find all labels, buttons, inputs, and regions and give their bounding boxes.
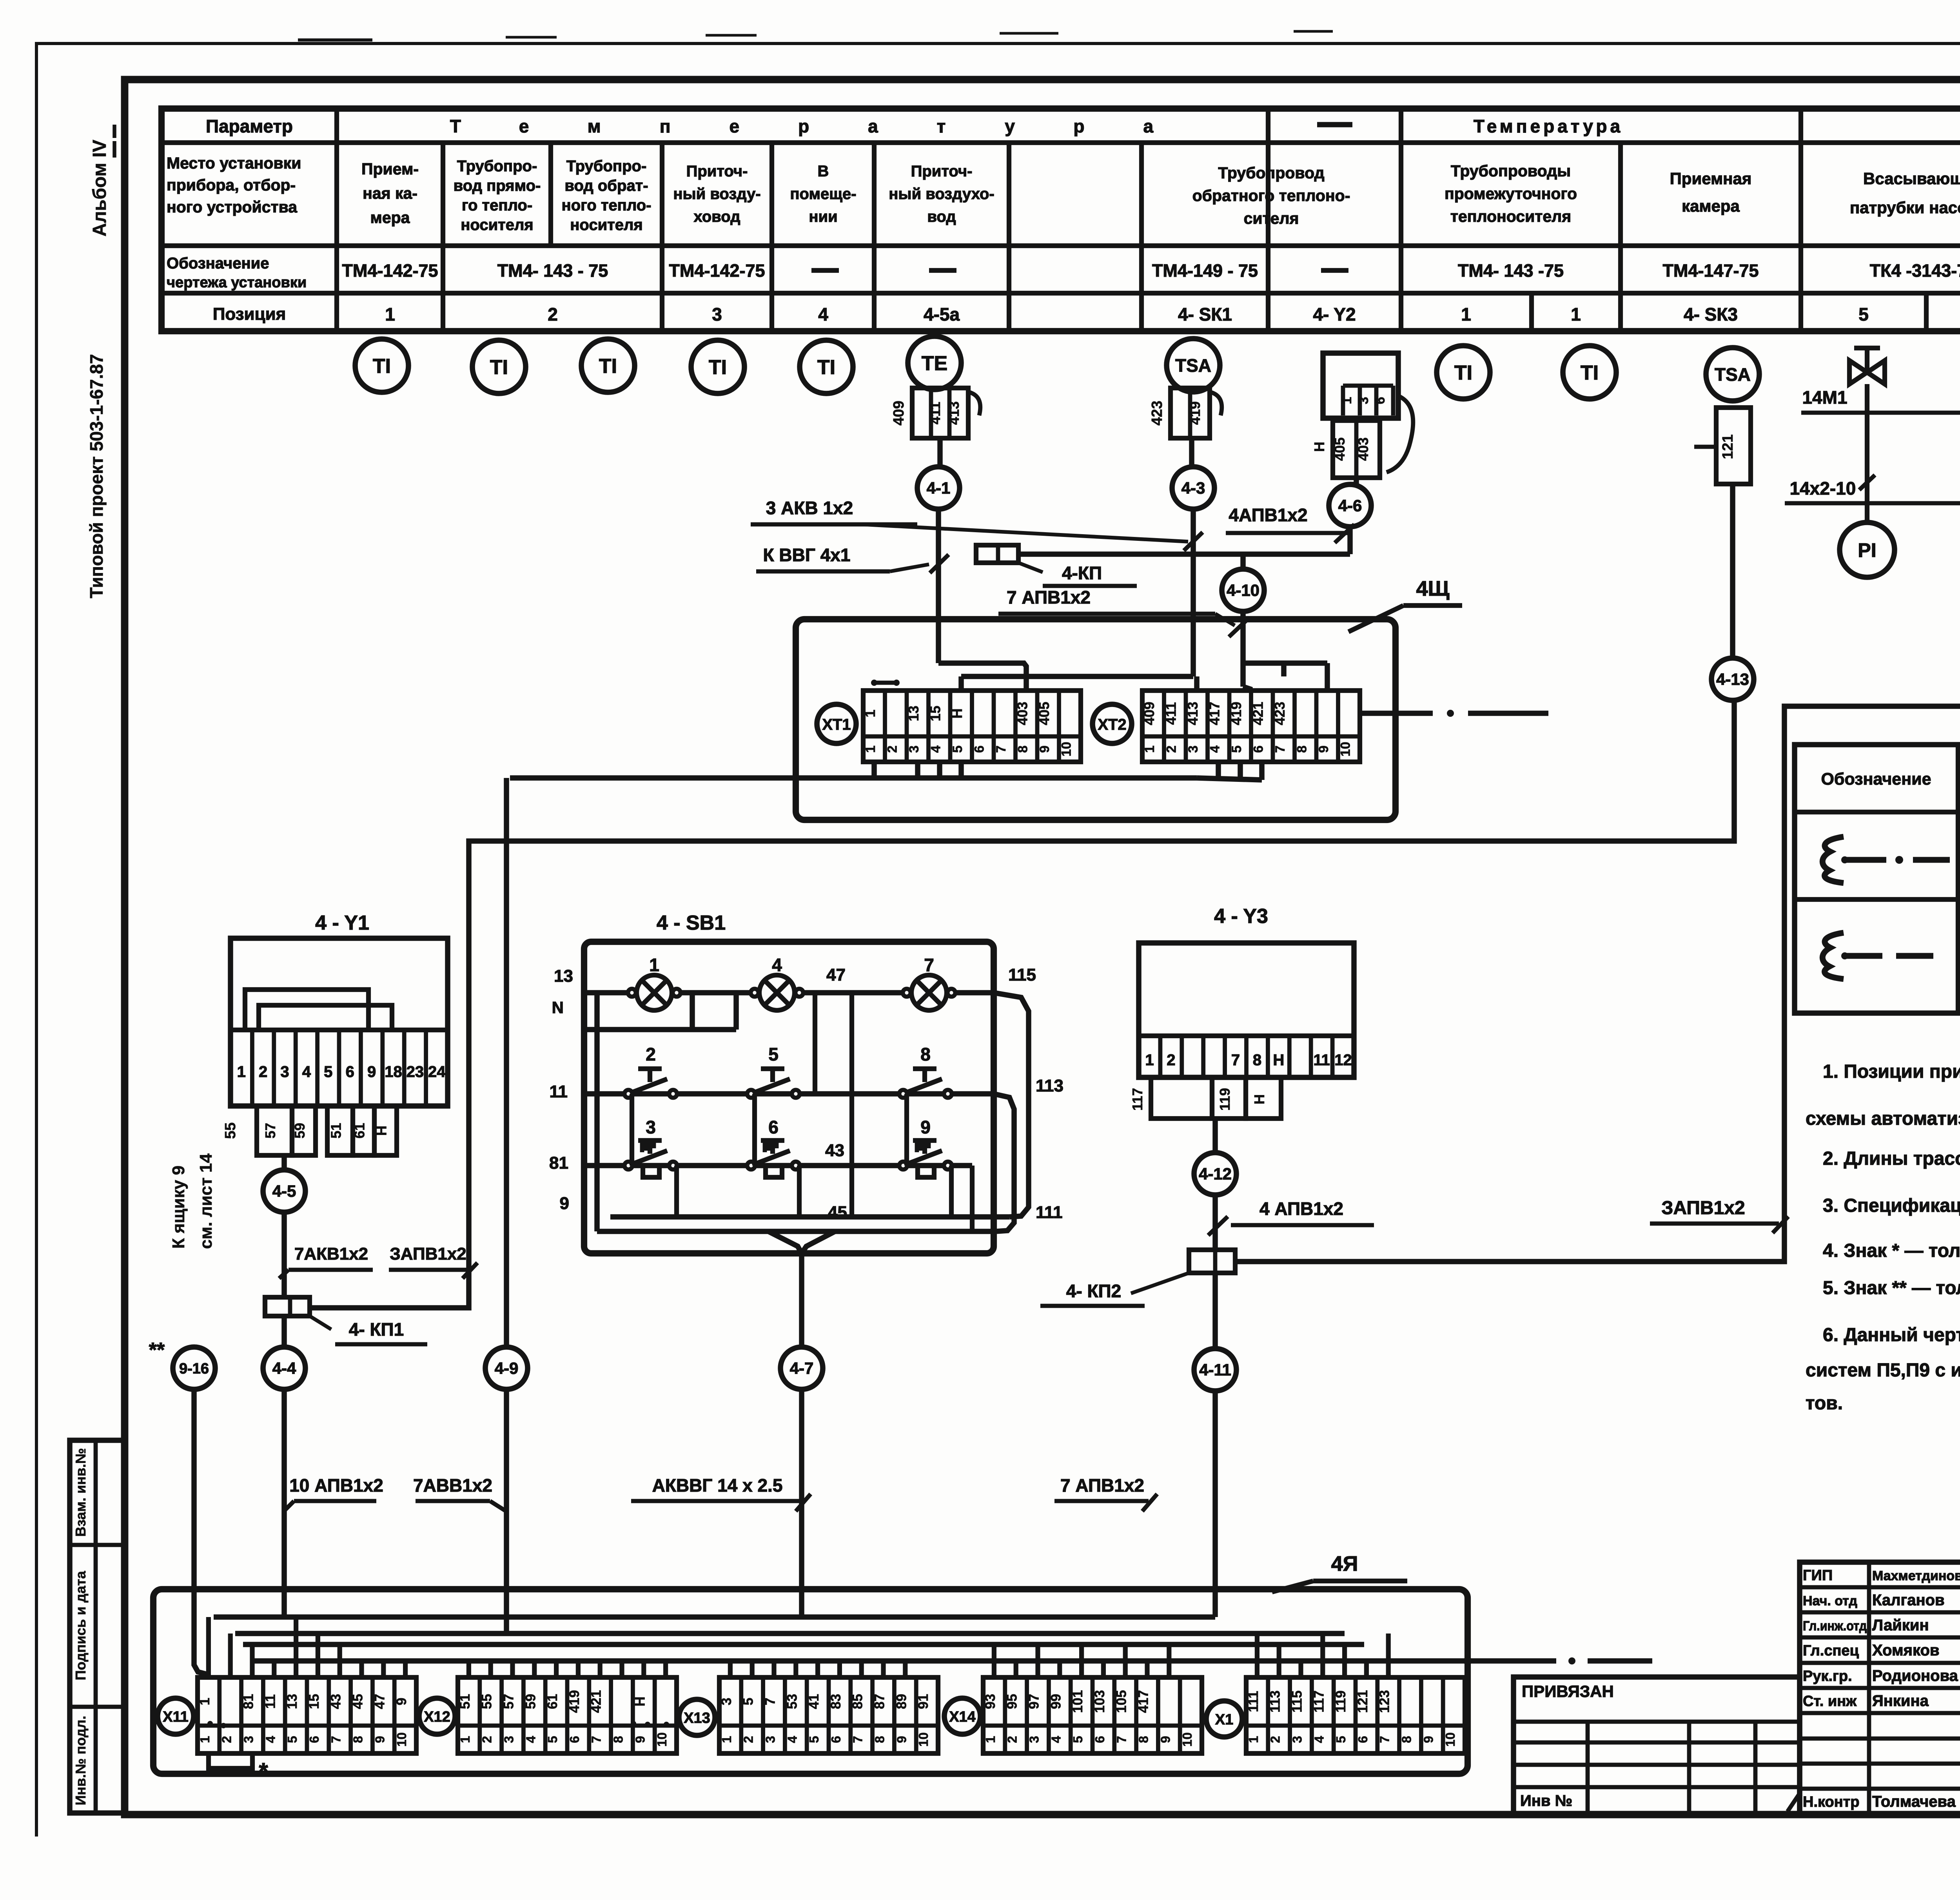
sub-terminals below 4-Y3 [1151,1077,1212,1119]
svg-text:7 АПВ1х2: 7 АПВ1х2 [1060,1475,1144,1496]
svg-text:прибора, отбор-: прибора, отбор- [167,176,296,194]
svg-text:ТМ4- 143 - 75: ТМ4- 143 - 75 [497,261,608,281]
svg-text:ТК4 -3143-70: ТК4 -3143-70 [1870,261,1960,281]
svg-text:6: 6 [567,1736,582,1743]
svg-text:Температура: Температура [1474,116,1623,136]
svg-text:ТМ4-147-75: ТМ4-147-75 [1662,261,1759,281]
svg-text:1: 1 [863,745,878,753]
svg-text:9: 9 [920,1117,931,1137]
svg-text:105: 105 [1114,1690,1129,1713]
svg-text:85: 85 [850,1694,866,1709]
svg-text:8: 8 [1136,1736,1151,1743]
svg-text:Место установки: Место установки [167,154,301,172]
svg-text:ТI: ТI [599,355,617,378]
svg-text:Н: Н [1251,1094,1267,1104]
bridge wires above XT1 [938,663,1026,691]
block 4-Y3 [1139,943,1354,1077]
svg-text:ХТ2: ХТ2 [1098,716,1126,733]
svg-text:413: 413 [946,401,962,425]
svg-text:схемы автоматизации см. л: схемы автоматизации см. лист 3 . [1806,1108,1960,1129]
wire 9-16 down to X11 [194,1389,207,1677]
svg-text:теплоносителя: теплоносителя [1450,207,1571,225]
wire 4-Y3 to 4-12 [1212,1119,1218,1153]
svg-text:Обозначение: Обозначение [167,255,269,272]
svg-text:115: 115 [1008,965,1036,984]
svg-text:Всасывающие: Всасывающие [1863,169,1960,188]
svg-text:4-9: 4-9 [495,1359,519,1378]
block 4-Y1 [230,938,448,1106]
terminal box 4Я [153,1589,1468,1774]
label 4-КП1 [310,1316,331,1329]
svg-text:ТI: ТI [1454,362,1472,384]
svg-text:РI: РI [1858,539,1876,561]
svg-text:13: 13 [285,1694,300,1709]
svg-text:5: 5 [1334,1736,1348,1743]
svg-text:4-7: 4-7 [790,1359,814,1378]
svg-text:3: 3 [1290,1736,1305,1743]
pushbutton 8 in 4-SB1 [899,1090,907,1098]
svg-text:7: 7 [1273,745,1288,753]
svg-text:Инв №: Инв № [1520,1792,1572,1809]
position circle 4-7 [780,1347,823,1389]
svg-text:Трубопро-: Трубопро- [566,158,647,175]
svg-text:2: 2 [1167,1052,1175,1069]
latch button 9 in 4-SB1 [899,1162,907,1169]
svg-text:4-4: 4-4 [272,1359,296,1378]
pushbutton row wire [584,1091,994,1097]
svg-text:43: 43 [825,1141,844,1160]
svg-text:3. Спецификацию см. лист: 3. Спецификацию см. лист 9 . [1823,1195,1960,1216]
pipe line 14x2-10 [1785,501,1960,506]
valve 1 [1849,361,1867,384]
svg-text:Инв.№ подл.: Инв.№ подл. [73,1716,89,1806]
svg-text:Подпись и дата: Подпись и дата [73,1571,89,1681]
svg-text:10 АПВ1х2: 10 АПВ1х2 [289,1475,383,1496]
svg-text:К ящику 9: К ящику 9 [169,1166,188,1249]
svg-text:см. лист 14: см. лист 14 [196,1153,216,1249]
svg-text:117: 117 [1129,1088,1145,1111]
wire 4-9 vertical [504,778,509,1347]
svg-text:4-12: 4-12 [1199,1165,1232,1183]
svg-text:Температура: Температура [450,116,1212,136]
svg-text:ЗАПВ1х2: ЗАПВ1х2 [390,1244,466,1264]
terminal strip X11 [158,1698,194,1734]
lamp 4 in 4-SB1 [759,975,795,1010]
parameter table grid [162,109,1960,331]
svg-text:5. Знак ** — только для: 5. Знак ** — только для системы П9 . [1823,1278,1960,1298]
instrument TI-2 [472,340,526,393]
TSA sensor terminal box 423/419 [1171,388,1210,438]
svg-text:7: 7 [329,1736,343,1743]
svg-text:Х12: Х12 [424,1709,450,1725]
svg-text:5: 5 [1071,1736,1085,1743]
svg-text:57: 57 [501,1694,517,1709]
svg-text:Н.контр: Н.контр [1803,1794,1860,1810]
latch button 6 in 4-SB1 [747,1162,755,1169]
svg-text:4- SК1: 4- SК1 [1178,304,1232,325]
svg-text:5: 5 [324,1063,332,1081]
svg-text:ТSА: ТSА [1715,364,1751,385]
svg-text:ТМ4- 143 -75: ТМ4- 143 -75 [1458,261,1564,281]
svg-text:53: 53 [784,1694,800,1709]
svg-text:4АПВ1х2: 4АПВ1х2 [1229,505,1307,525]
svg-text:1: 1 [983,1736,998,1743]
svg-text:Параметр: Параметр [206,116,293,136]
svg-text:Калганов: Калганов [1872,1592,1945,1609]
svg-text:5: 5 [741,1698,756,1705]
svg-text:81: 81 [549,1153,568,1173]
svg-text:7АВВ1х2: 7АВВ1х2 [413,1475,492,1496]
svg-text:419: 419 [1187,401,1203,425]
svg-text:2: 2 [480,1736,494,1743]
svg-text:N: N [552,998,564,1017]
wire 4-12 down [1212,1195,1218,1250]
svg-text:ТМ4-142-75: ТМ4-142-75 [342,261,438,281]
position circle 9-16 [173,1347,215,1389]
svg-text:8: 8 [873,1736,887,1743]
instrument TI-3 [581,339,635,392]
legend symbol protective conductor [1822,837,1844,883]
svg-text:ТI: ТI [1581,362,1599,384]
svg-text:4: 4 [1049,1736,1063,1743]
svg-text:ховод: ховод [693,208,740,225]
svg-text:ГИП: ГИП [1803,1567,1833,1584]
stubs from buses to X11 [206,1617,211,1677]
svg-text:ЗАПВ1х2: ЗАПВ1х2 [1661,1198,1745,1218]
position circle 4-12 [1194,1153,1236,1195]
wire 4-7 down to box [799,1389,804,1617]
svg-text:97: 97 [1027,1694,1042,1709]
legend symbol zero conductor [1822,933,1844,979]
lamp 1 in 4-SB1 [637,975,672,1010]
wire 4-14 long run to 4-KP2 [1235,700,1960,1262]
svg-text:ТМ4-149 - 75: ТМ4-149 - 75 [1152,261,1258,281]
svg-text:89: 89 [894,1694,909,1709]
svg-text:Приточ-: Приточ- [686,163,748,180]
terminal cells 405/403 with N [1333,421,1380,478]
svg-text:8: 8 [351,1736,365,1743]
svg-text:95: 95 [1005,1694,1020,1709]
svg-text:5: 5 [1229,745,1244,753]
svg-text:3: 3 [763,1736,778,1743]
svg-text:1: 1 [1145,1052,1154,1069]
svg-text:419: 419 [1228,702,1244,725]
svg-text:Х11: Х11 [163,1709,189,1725]
svg-text:10: 10 [655,1732,669,1747]
svg-text:Н: Н [1273,1052,1284,1069]
svg-text:ный воздухо-: ный воздухо- [889,185,995,203]
svg-text:9: 9 [1316,745,1331,753]
svg-text:ного тепло-: ного тепло- [562,197,652,214]
svg-text:14х2-10: 14х2-10 [1790,478,1856,499]
svg-text:ТI: ТI [817,356,835,379]
svg-text:Х13: Х13 [684,1710,710,1726]
svg-text:чертежа установки: чертежа установки [167,274,307,291]
svg-text:5: 5 [1858,304,1869,325]
svg-text:87: 87 [872,1694,887,1709]
label 4-КП2 [1131,1273,1189,1293]
svg-text:Трубопроводы: Трубопроводы [1451,162,1571,180]
scan artifact dashes top [298,38,372,42]
svg-text:423: 423 [1272,702,1288,725]
svg-text:Родионова: Родионова [1872,1667,1958,1684]
position circle 4-5 [263,1170,305,1212]
svg-text:1. Позиции приборов и ап: 1. Позиции приборов и аппаратуры указаны… [1823,1061,1960,1082]
svg-text:Позиция: Позиция [213,305,286,324]
svg-text:6. Данный чертеж выполне: 6. Данный чертеж выполнен для системы П4… [1823,1325,1960,1345]
svg-text:41: 41 [806,1694,822,1709]
wire into XT1 bottom [510,775,964,781]
svg-text:61: 61 [352,1123,368,1139]
N return wire [584,1027,736,1032]
svg-text:1: 1 [862,709,878,717]
svg-text:417: 417 [1136,1690,1151,1713]
svg-text:ТI: ТI [709,356,727,379]
svg-text:7: 7 [851,1736,865,1743]
svg-text:117: 117 [1311,1690,1327,1712]
svg-text:14М1: 14М1 [1802,387,1847,408]
svg-text:7: 7 [924,955,934,975]
svg-text:В: В [818,163,829,180]
svg-text:6: 6 [1373,397,1388,404]
svg-text:1: 1 [198,1736,212,1743]
privyazan box [1514,1677,1800,1814]
svg-text:4: 4 [1207,745,1222,753]
svg-text:4-5: 4-5 [272,1182,296,1200]
svg-text:4- Y2: 4- Y2 [1313,304,1356,325]
box 4-SB1 [584,942,994,1253]
pressure gauges PI [1865,503,1869,522]
instrument TE [908,336,961,390]
junction box 4-KP2 [1189,1250,1235,1273]
svg-text:4-3: 4-3 [1181,479,1205,497]
svg-text:43: 43 [328,1694,344,1709]
svg-text:57: 57 [262,1123,278,1139]
svg-text:Приточ-: Приточ- [911,163,973,180]
svg-text:4: 4 [928,745,943,753]
wire 4-13 long run to 4-KP1 [310,700,1734,1308]
position circle 4-11 [1194,1349,1236,1391]
svg-text:2: 2 [1164,745,1179,753]
svg-text:1: 1 [1461,304,1471,325]
svg-text:4- КП2: 4- КП2 [1066,1281,1121,1301]
svg-text:носителя: носителя [570,216,643,234]
instrument TI-7 [1563,346,1616,399]
svg-text:61: 61 [545,1694,560,1709]
4-SB1 bottom bus 2 [597,1229,996,1234]
bus wires in 4Я [214,1614,1215,1620]
svg-text:3: 3 [1356,397,1371,404]
svg-text:носителя: носителя [461,216,534,234]
svg-text:59: 59 [292,1123,308,1139]
svg-text:Янкина: Янкина [1872,1692,1929,1710]
PE dash-dot from panel [1360,711,1433,716]
svg-text:ного устройства: ного устройства [167,198,298,216]
panel box 4Щ [796,619,1396,820]
4-SB1 right rail 113 [994,1094,1014,1231]
svg-text:99: 99 [1048,1694,1063,1709]
svg-text:4-10: 4-10 [1227,581,1259,600]
svg-text:систем П5,П9 с изменением: систем П5,П9 с изменением индекса в марк… [1806,1360,1960,1381]
svg-text:405: 405 [1036,702,1052,725]
svg-text:1: 1 [458,1736,472,1743]
position circle 4-6 [1329,484,1371,527]
svg-text:11: 11 [549,1082,568,1101]
svg-text:6: 6 [1251,745,1266,753]
svg-text:1: 1 [1339,397,1354,404]
svg-text:Обозначение: Обозначение [1821,770,1931,789]
stubs from buses to X14 [992,1644,996,1677]
svg-text:9: 9 [1421,1736,1436,1743]
svg-text:10: 10 [1180,1732,1194,1747]
svg-text:Н: Н [632,1697,648,1706]
svg-text:Прием-: Прием- [361,160,419,178]
svg-text:111: 111 [1036,1203,1063,1222]
terminal strip X1 [1206,1701,1242,1737]
svg-text:4-1: 4-1 [927,479,951,497]
terminal strip XT1 [817,704,856,743]
svg-text:47: 47 [826,965,846,984]
instrument TI-5 [800,340,853,393]
svg-text:2: 2 [646,1044,656,1064]
4-SB1 left rail [594,993,600,1231]
svg-text:93: 93 [983,1694,998,1709]
svg-text:6: 6 [768,1117,779,1137]
svg-text:409: 409 [1141,702,1157,725]
instrument TI-4 [691,340,744,393]
svg-text:3: 3 [907,745,922,753]
instrument TI-6 [1437,346,1490,399]
svg-text:4- SК3: 4- SК3 [1684,304,1738,325]
connector box above 4-6 with cells 1 3 6 [1323,353,1398,418]
svg-text:7: 7 [763,1698,778,1705]
wire 4-Y1 to 4-5 [281,1155,287,1170]
svg-text:Трубопровод: Трубопровод [1218,164,1324,182]
wire 4-10 into panel [1240,611,1246,687]
svg-text:ТI: ТI [490,356,508,379]
wire TSA to 4-3 [1189,438,1194,467]
svg-text:тов.: тов. [1806,1393,1843,1414]
svg-text:411: 411 [1163,702,1179,725]
svg-text:Н: Н [1311,442,1327,452]
svg-text:ХТ1: ХТ1 [822,716,851,733]
svg-text:Махметдинов: Махметдинов [1872,1568,1960,1583]
svg-text:Типовой проект 503-1-67.87: Типовой проект 503-1-67.87 [86,354,107,598]
svg-text:4: 4 [785,1736,799,1743]
svg-text:6: 6 [829,1736,843,1743]
svg-text:К ВВГ 4х1: К ВВГ 4х1 [763,545,851,565]
stubs from buses to X1 [1255,1633,1259,1677]
svg-text:Н: Н [949,709,965,719]
svg-text:7: 7 [1114,1736,1129,1743]
svg-text:12: 12 [1334,1052,1352,1069]
svg-text:1: 1 [719,1736,734,1743]
svg-text:103: 103 [1092,1690,1107,1713]
pipe line 14М1 [1801,411,1960,415]
svg-text:8: 8 [1253,1052,1261,1069]
svg-text:8: 8 [1294,745,1309,753]
svg-text:1: 1 [385,304,395,325]
svg-text:419: 419 [567,1690,582,1713]
bridge wires above XT2 [1243,687,1250,691]
svg-text:вод обрат-: вод обрат- [564,177,648,194]
jumper dots XT1 cells 1-2 [871,680,877,686]
svg-text:9: 9 [894,1736,909,1743]
pushbutton 5 in 4-SB1 [747,1090,755,1098]
svg-text:мера: мера [370,208,410,227]
svg-text:Гл.инж.отд: Гл.инж.отд [1803,1619,1867,1633]
svg-text:Трубопро-: Трубопро- [457,158,537,175]
svg-text:1: 1 [1571,304,1581,325]
terminal strip X12 [419,1698,455,1734]
margin stamp strip [70,1440,125,1813]
wire cells to 4-6 [1354,478,1359,484]
junction box 4-KP1 [265,1297,310,1316]
4-SB1 bottom bus 1 [610,1214,1009,1220]
wire TE to 4-1 [937,438,943,467]
title block personnel table [1800,1562,1960,1814]
svg-text:13: 13 [906,705,922,721]
svg-text:409: 409 [891,401,907,425]
svg-text:8: 8 [920,1044,931,1064]
svg-text:113: 113 [1036,1076,1063,1095]
svg-text:417: 417 [1206,702,1222,725]
svg-text:ТSА: ТSА [1175,355,1211,376]
wire 4-1 down to panel [936,509,941,663]
wire 4-6 down to junction line [1347,527,1353,554]
legend table [1795,745,1960,1013]
svg-text:4. Знак * — только для: 4. Знак * — только для систем П4, П5 . [1823,1240,1960,1261]
position circle 4-10 [1222,569,1264,611]
svg-text:4Я: 4Я [1331,1552,1358,1575]
svg-text:АКВВГ 14 х 2.5: АКВВГ 14 х 2.5 [652,1475,783,1496]
svg-text:411: 411 [927,402,943,424]
label 4-KП [1018,563,1043,572]
svg-text:3: 3 [1186,745,1201,753]
svg-text:4: 4 [302,1063,311,1081]
svg-text:4-13: 4-13 [1716,670,1749,689]
svg-text:ПРИВЯЗАН: ПРИВЯЗАН [1522,1682,1614,1701]
svg-text:10: 10 [1443,1732,1457,1747]
svg-text:7АКВ1х2: 7АКВ1х2 [294,1244,368,1264]
svg-text:вод: вод [927,208,956,225]
svg-text:121: 121 [1355,1690,1370,1713]
svg-text:6: 6 [972,745,987,753]
svg-text:3: 3 [502,1736,516,1743]
svg-text:Толмачева: Толмачева [1872,1793,1956,1810]
wire to 4-10 [1240,554,1246,569]
4-SB1 right rail 115 [994,993,1029,1217]
svg-text:4-6: 4-6 [1338,497,1362,515]
svg-text:9: 9 [372,1736,387,1743]
svg-text:423: 423 [1149,401,1165,425]
svg-text:15: 15 [307,1694,322,1709]
svg-text:Приемная: Приемная [1670,169,1752,188]
TSA-right terminal box 121 [1716,408,1751,484]
stubs from buses to X13 [728,1661,733,1677]
svg-text:5: 5 [545,1736,560,1743]
svg-text:Хомяков: Хомяков [1872,1642,1940,1659]
svg-text:11: 11 [1314,1052,1330,1069]
svg-text:помеще-: помеще- [790,185,856,203]
svg-text:4 - Y1: 4 - Y1 [315,912,369,934]
svg-text:51: 51 [328,1123,344,1139]
svg-text:55: 55 [479,1694,495,1709]
stubs from buses to X12 [466,1661,471,1677]
4-SB1 column verticals [813,993,817,1094]
svg-text:24: 24 [428,1063,446,1081]
svg-text:камера: камера [1682,197,1740,215]
